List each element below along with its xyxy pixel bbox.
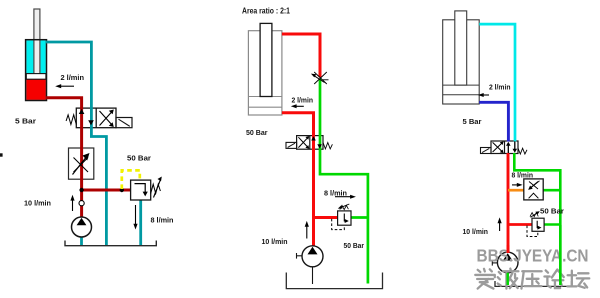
- svg-text:Area ratio : 2:1: Area ratio : 2:1: [242, 7, 291, 16]
- svg-text:5 Bar: 5 Bar: [15, 116, 36, 125]
- svg-text:8 l/min: 8 l/min: [324, 188, 347, 197]
- svg-text:50 Bar: 50 Bar: [127, 154, 151, 163]
- svg-text:50 Bar: 50 Bar: [246, 128, 268, 137]
- svg-text:BBS.JYEYA.CN: BBS.JYEYA.CN: [477, 245, 589, 265]
- svg-text:50 Bar: 50 Bar: [344, 241, 365, 250]
- svg-text:5 Bar: 5 Bar: [463, 117, 482, 126]
- svg-text:8 l/min: 8 l/min: [512, 171, 534, 180]
- svg-text:8 l/min: 8 l/min: [151, 216, 174, 225]
- svg-text:10 l/min: 10 l/min: [262, 237, 288, 246]
- svg-text:50 Bar: 50 Bar: [540, 207, 564, 216]
- svg-text:10 l/min: 10 l/min: [463, 227, 489, 236]
- svg-text:2 l/min: 2 l/min: [489, 83, 511, 92]
- svg-text:10 l/min: 10 l/min: [24, 199, 51, 208]
- svg-text:2 l/min: 2 l/min: [292, 96, 314, 105]
- svg-text:2 l/min: 2 l/min: [61, 73, 85, 82]
